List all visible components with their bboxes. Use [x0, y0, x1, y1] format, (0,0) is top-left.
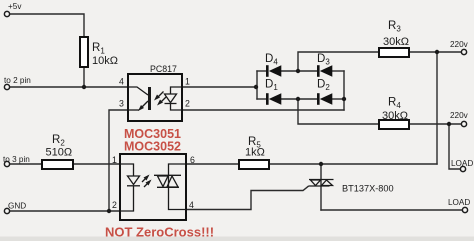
svg-text:MOC3052: MOC3052: [124, 140, 181, 154]
svg-text:220v: 220v: [450, 40, 469, 49]
svg-text:NOT ZeroCross!!!: NOT ZeroCross!!!: [105, 225, 214, 240]
svg-text:3: 3: [119, 99, 124, 109]
svg-text:220v: 220v: [450, 111, 469, 120]
svg-text:2: 2: [185, 99, 190, 109]
svg-text:to 3 pin: to 3 pin: [3, 155, 30, 164]
svg-text:4: 4: [119, 77, 124, 87]
svg-text:GND: GND: [8, 202, 26, 211]
svg-text:PC817: PC817: [150, 64, 177, 74]
svg-text:10kΩ: 10kΩ: [92, 55, 118, 67]
svg-text:2: 2: [112, 200, 117, 210]
svg-text:30kΩ: 30kΩ: [382, 110, 408, 122]
svg-text:LOAD: LOAD: [448, 198, 470, 207]
svg-text:LOAD: LOAD: [451, 159, 473, 168]
svg-text:4: 4: [189, 200, 194, 210]
svg-text:BT137X-800: BT137X-800: [342, 184, 394, 194]
svg-text:6: 6: [190, 155, 195, 165]
svg-text:1: 1: [112, 155, 117, 165]
svg-text:to 2 pin: to 2 pin: [4, 76, 31, 85]
svg-text:30kΩ: 30kΩ: [383, 36, 409, 48]
svg-text:1: 1: [185, 77, 190, 87]
svg-text:1kΩ: 1kΩ: [245, 147, 265, 159]
svg-text:+5v: +5v: [8, 2, 22, 11]
svg-text:510Ω: 510Ω: [46, 147, 73, 159]
